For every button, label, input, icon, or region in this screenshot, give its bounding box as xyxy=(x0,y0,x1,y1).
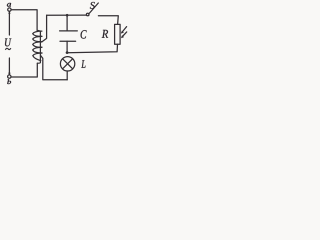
label S xyxy=(90,2,95,9)
wire from b to coil bottom xyxy=(11,63,37,77)
capacitor C top plate xyxy=(60,30,78,32)
wire left lower (source lead) xyxy=(8,58,10,75)
capacitor C top lead xyxy=(66,15,68,31)
label U xyxy=(5,39,11,47)
node dot above b xyxy=(8,72,10,74)
wire: top rail right section to R xyxy=(98,16,118,25)
label a xyxy=(7,3,11,7)
wire left upper (source lead) xyxy=(8,11,10,35)
wire from a to coil top xyxy=(11,10,37,31)
lamp L bottom lead xyxy=(66,71,68,80)
wire: R bottom to mid rail xyxy=(67,44,117,52)
lamp L cross xyxy=(63,59,73,69)
label b xyxy=(7,79,11,84)
switch S blade xyxy=(89,3,99,14)
terminal b xyxy=(8,75,11,78)
LDR arrow 1 xyxy=(122,27,127,33)
capacitor C bottom plate xyxy=(60,40,76,42)
wire: top rail left section xyxy=(47,14,87,16)
node: top junction xyxy=(66,14,69,17)
label C xyxy=(81,30,87,38)
wire: upper tap to top rail xyxy=(42,15,47,42)
capacitor C bottom lead xyxy=(66,41,68,52)
lamp L circle xyxy=(60,57,74,71)
label R xyxy=(102,30,108,38)
switch S pivot xyxy=(86,13,89,16)
resistor R box xyxy=(115,24,121,44)
label tilde xyxy=(5,48,11,50)
node dot below a xyxy=(8,12,10,14)
label L xyxy=(81,60,85,68)
inductor coil (autotransformer winding) xyxy=(37,30,40,63)
LDR arrow 2 xyxy=(122,32,127,37)
terminal a xyxy=(8,8,11,11)
wire: bottom rail to lower tap xyxy=(41,55,68,79)
node: mid junction xyxy=(66,51,69,54)
